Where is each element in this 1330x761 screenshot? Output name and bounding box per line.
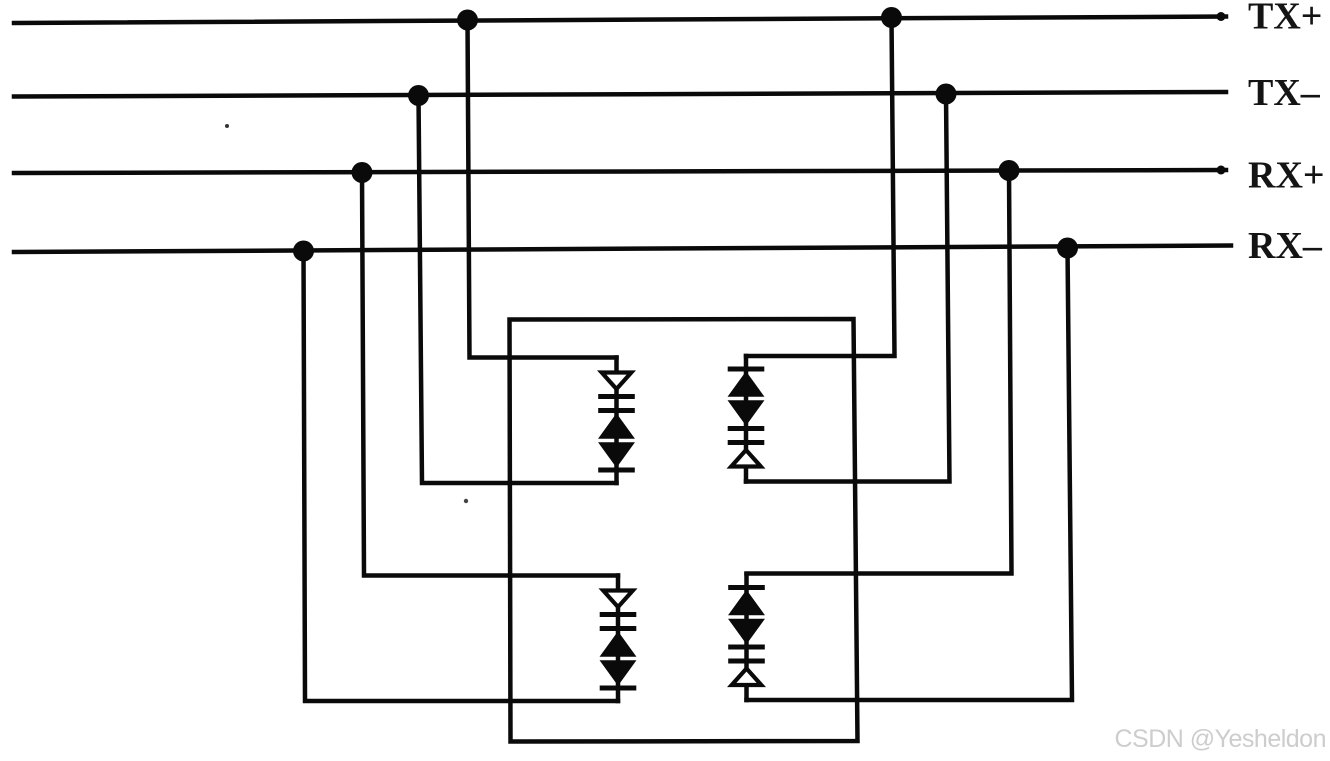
svg-text:RX+: RX+ — [1248, 155, 1325, 197]
svg-text:TX+: TX+ — [1248, 0, 1322, 38]
svg-text:RX–: RX– — [1248, 225, 1323, 267]
svg-text:TX–: TX– — [1248, 72, 1321, 114]
svg-text:CSDN @Yesheldon: CSDN @Yesheldon — [1114, 725, 1326, 753]
